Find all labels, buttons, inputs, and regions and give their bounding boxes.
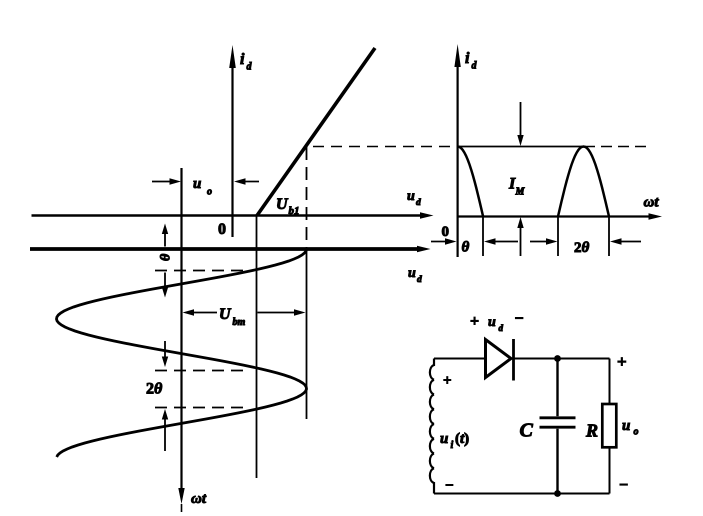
- svg-text:(t): (t): [455, 431, 469, 447]
- u_d axis label (lower right): [408, 266, 422, 285]
- source polarity + (left): [443, 373, 452, 389]
- i_d axis of transfer characteristic: [229, 45, 236, 237]
- svg-text:o: o: [634, 427, 639, 438]
- svg-text:o: o: [207, 187, 212, 198]
- wt label (pulse diagram): [644, 195, 660, 211]
- i_d axis (pulse diagram): [454, 44, 460, 257]
- conduction dashed projection (second pulse start): [155, 370, 250, 372]
- node dot (top): [554, 355, 561, 362]
- svg-text:2θ: 2θ: [146, 381, 163, 398]
- conduction dashed projection (second pulse end): [155, 407, 247, 409]
- svg-text:d: d: [247, 62, 253, 73]
- wt axis (pulse diagram): [458, 213, 662, 219]
- capacitor label C: [520, 420, 534, 442]
- svg-text:bm: bm: [233, 317, 246, 328]
- svg-text:M: M: [515, 187, 526, 198]
- current pulse 2: [558, 147, 609, 217]
- svg-text:−: −: [619, 477, 628, 494]
- wt label (left diagram): [191, 491, 207, 507]
- svg-text:C: C: [520, 420, 534, 442]
- peak level dashed line (between diagrams): [313, 146, 456, 148]
- bottom wire (circuit): [434, 493, 610, 495]
- svg-text:+: +: [443, 373, 452, 389]
- conduction start dashed projection (theta): [155, 270, 252, 272]
- current pulse 1 (truncated): [458, 147, 484, 217]
- threshold projection vertical line: [256, 216, 258, 479]
- svg-text:R: R: [585, 421, 598, 441]
- svg-text:d: d: [499, 323, 504, 333]
- svg-text:−: −: [445, 478, 454, 494]
- output polarity - (bottom right): [619, 477, 628, 494]
- 2theta dimension (pulse diagram): [530, 238, 641, 244]
- input sine wave u_d(wt): [57, 249, 307, 457]
- diode D: [486, 339, 514, 381]
- U_bm label: [219, 306, 246, 328]
- tick at second pulse start: [557, 217, 559, 257]
- svg-text:0: 0: [218, 221, 226, 238]
- svg-text:+: +: [470, 313, 479, 330]
- origin 0 label (transfer characteristic): [218, 221, 226, 238]
- svg-text:b1: b1: [289, 205, 300, 217]
- peak projection dashed vertical: [306, 147, 308, 248]
- I_M label: [508, 176, 526, 198]
- u_d axis of transfer characteristic: [32, 212, 434, 218]
- svg-text:u: u: [440, 431, 448, 447]
- svg-text:i: i: [451, 440, 454, 451]
- 2theta label (left): [146, 381, 163, 398]
- peak current level line (solid): [458, 146, 584, 148]
- 2theta label (pulse diagram): [574, 240, 590, 256]
- peak envelope vertical line: [306, 248, 308, 419]
- tick at second pulse end: [608, 217, 610, 257]
- 2theta dimension arrows (left): [162, 341, 168, 451]
- svg-text:2θ: 2θ: [574, 240, 590, 256]
- svg-text:θ: θ: [462, 240, 470, 256]
- node dot (bottom): [554, 490, 561, 497]
- i_d label (pulse diagram): [465, 50, 478, 72]
- origin 0 label (pulse diagram): [442, 224, 450, 240]
- svg-text:0: 0: [442, 224, 450, 240]
- i_d axis label (left): [240, 51, 253, 73]
- wt time axis (waveform, pointing down): [178, 168, 184, 512]
- capacitor C: [540, 359, 576, 494]
- tick at first pulse end: [482, 217, 484, 257]
- source polarity - (left): [445, 478, 454, 494]
- input signal u_d axis (waveform zero line): [30, 246, 431, 252]
- output polarity + (top right): [617, 352, 627, 371]
- U_bm amplitude dimension: [183, 309, 306, 315]
- svg-text:+: +: [617, 352, 627, 371]
- svg-text:U: U: [219, 306, 232, 323]
- theta label (pulse diagram): [462, 240, 470, 256]
- theta dimension (pulse diagram): [431, 238, 518, 244]
- theta label (rotated): [156, 254, 171, 262]
- svg-text:d: d: [416, 198, 421, 208]
- svg-text:ωt: ωt: [191, 491, 207, 507]
- u_o dimension arrows: [152, 178, 259, 184]
- output label u_o: [622, 418, 639, 438]
- threshold voltage label U_b1: [276, 196, 300, 217]
- peak current level line (dashed right): [584, 146, 652, 148]
- svg-text:θ: θ: [156, 254, 171, 262]
- svg-text:d: d: [472, 61, 478, 72]
- right rail (lower): [609, 447, 611, 493]
- source winding (transformer secondary): [430, 359, 434, 494]
- svg-text:i: i: [465, 50, 470, 67]
- top wire (circuit): [434, 358, 610, 360]
- right rail (upper): [609, 359, 611, 405]
- u_o label: [193, 176, 212, 198]
- svg-text:ωt: ωt: [644, 195, 660, 211]
- svg-text:u: u: [622, 418, 630, 434]
- u_d axis label (upper right): [407, 189, 421, 208]
- svg-text:i: i: [240, 51, 245, 68]
- svg-text:u: u: [488, 315, 496, 330]
- diode voltage label + u_d -: [470, 311, 524, 334]
- svg-text:u: u: [407, 189, 415, 204]
- svg-text:u: u: [193, 176, 201, 192]
- resistor label R: [585, 421, 598, 441]
- svg-text:u: u: [408, 266, 416, 281]
- svg-text:U: U: [276, 196, 289, 213]
- theta dimension arrows (left): [162, 224, 168, 298]
- diode piecewise-linear characteristic: [257, 48, 375, 216]
- svg-text:d: d: [417, 275, 422, 285]
- source label u_i(t): [440, 431, 469, 451]
- svg-text:−: −: [515, 311, 524, 328]
- I_M dimension arrows: [517, 102, 523, 256]
- resistor R: [602, 404, 616, 447]
